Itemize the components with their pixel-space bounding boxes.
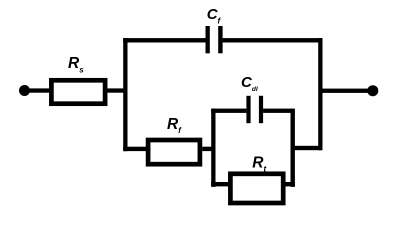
svg-text:Cdl: Cdl <box>241 74 258 93</box>
svg-text:Rs: Rs <box>68 55 84 74</box>
capacitor C1 (Cf) plate left <box>206 26 210 53</box>
wire: right terminal lead <box>320 89 373 93</box>
wire: right vertical branch <box>318 38 322 150</box>
capacitor C1 (Cf) plate right <box>218 26 222 53</box>
wire: top branch right <box>223 38 323 42</box>
node: left terminal <box>19 85 30 96</box>
wire: loop-to-right-vertical connector <box>292 146 323 150</box>
resistor R1 (Rs) <box>51 80 105 103</box>
svg-text:Cf: Cf <box>207 6 222 26</box>
capacitor C2 (Cdl) plate right <box>259 96 263 123</box>
capacitor C2 (Cdl) plate left <box>246 96 250 123</box>
wire <box>105 88 128 92</box>
wire: Cdl branch right <box>263 109 293 113</box>
svg-text:Rf: Rf <box>167 116 182 135</box>
wire: left vertical branch <box>123 38 127 151</box>
svg-text:Rt: Rt <box>252 155 266 174</box>
wire: bottom branch left <box>123 147 146 151</box>
wire: parallel-loop right vertical <box>291 109 295 187</box>
wire: Cdl branch left <box>211 109 246 113</box>
node: right terminal <box>367 85 378 96</box>
resistor R3 (Rt) <box>230 174 283 203</box>
wire: Rt branch right stub <box>283 182 295 186</box>
wire <box>202 147 215 151</box>
resistor R2 (Rf) <box>148 140 200 164</box>
wire: top branch left <box>123 38 206 42</box>
wire: parallel-loop left vertical <box>211 109 215 187</box>
wire <box>24 88 51 92</box>
wire: Rt branch left stub <box>211 182 229 186</box>
